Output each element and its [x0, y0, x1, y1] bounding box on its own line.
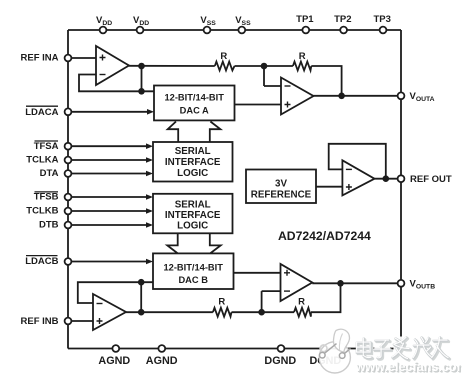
terminal TP2 — [340, 27, 347, 34]
svg-text:AD7242/AD7244: AD7242/AD7244 — [278, 229, 371, 243]
terminal REF INA — [65, 55, 72, 62]
svg-text:INTERFACE: INTERFACE — [165, 157, 221, 168]
node R3 junction — [258, 309, 265, 316]
node U5 output — [383, 175, 390, 182]
svg-text:AGND: AGND — [98, 355, 130, 367]
terminal REF INB — [65, 318, 72, 325]
ghost terminal DGND pin2 under logo — [320, 345, 327, 352]
svg-text:LOGIC: LOGIC — [177, 168, 208, 179]
node DACB ref — [138, 279, 145, 286]
svg-text:R: R — [220, 51, 227, 62]
svg-text:R: R — [218, 297, 225, 308]
wire LDACB to DAC B — [71, 259, 153, 265]
terminal DTB — [65, 222, 72, 229]
terminal VSS pin1 — [204, 27, 211, 34]
terminal TFSB — [65, 194, 72, 201]
svg-text:SERIAL: SERIAL — [175, 199, 211, 210]
block serial interface logic B — [153, 194, 233, 234]
wire U1 output row — [129, 66, 342, 96]
op-amp U5 — [342, 160, 374, 195]
wire DAC A to U2 — [235, 104, 282, 106]
terminal REF OUT — [398, 175, 405, 182]
wire DAC B to U4 — [234, 272, 281, 274]
svg-text:3V: 3V — [275, 178, 287, 189]
resistor R1 — [215, 62, 235, 71]
svg-text:DTB: DTB — [39, 220, 59, 231]
terminal TFSA — [65, 143, 72, 150]
block serial interface logic A — [153, 142, 233, 182]
block DAC A — [154, 86, 235, 121]
svg-text:12-BIT/14-BIT: 12-BIT/14-BIT — [163, 262, 223, 272]
wire REF INB to op-amp U3 — [71, 320, 93, 322]
watermark url text — [355, 360, 462, 376]
resistor R2 — [293, 62, 311, 71]
wire U4 output to VOUTB — [312, 282, 397, 284]
arrowhead LDACA — [147, 109, 154, 115]
wire REF INA to op-amp U1 — [71, 57, 96, 59]
label TFSB with overline — [34, 192, 59, 203]
svg-text:LDACB: LDACB — [25, 256, 58, 267]
bus arrow up-left DAC A — [168, 122, 179, 143]
node DACA ref — [138, 88, 145, 95]
terminal TP3 — [380, 27, 387, 34]
terminal VOUTA — [398, 92, 405, 99]
svg-text:TFSB: TFSB — [34, 192, 59, 203]
resistor R3 — [213, 308, 232, 317]
wire TCLKA arrow — [71, 157, 153, 163]
wire LDACA to DAC A — [71, 111, 148, 113]
wire 3V ref to U5 — [316, 186, 342, 188]
svg-text:TP2: TP2 — [334, 14, 351, 25]
node U3 output — [138, 309, 145, 316]
svg-text:DGND: DGND — [264, 355, 296, 367]
svg-text:www.elecfans.com: www.elecfans.com — [355, 360, 462, 374]
wire U3 output row — [126, 283, 341, 312]
wire TCLKB arrow — [71, 208, 153, 214]
svg-text:R: R — [298, 297, 305, 308]
bus arrow up-right DAC A — [210, 122, 221, 143]
node U2 output — [338, 93, 345, 100]
wire U2 output to VOUTA — [314, 95, 398, 97]
svg-text:LDACA: LDACA — [25, 107, 58, 118]
terminal LDACB — [65, 258, 72, 265]
svg-text:12-BIT/14-BIT: 12-BIT/14-BIT — [164, 93, 224, 103]
op-amp U1 — [96, 46, 129, 85]
terminal TCLKA — [65, 157, 72, 164]
wire U1 feedback — [79, 66, 154, 91]
svg-text:R: R — [299, 51, 306, 62]
svg-text:AGND: AGND — [146, 355, 178, 367]
wire bottom rail — [68, 348, 401, 350]
svg-text:DAC B: DAC B — [178, 275, 208, 285]
terminal LDACA — [65, 108, 72, 115]
wire U5 output to REF OUT — [375, 178, 398, 180]
op-amp U2 — [281, 78, 314, 115]
svg-text:REF INA: REF INA — [21, 53, 59, 64]
bus arrow down-left DAC B — [167, 233, 177, 253]
wire DTB arrow — [71, 222, 153, 228]
wire DTA arrow — [71, 171, 153, 177]
terminal DGND pin2 ghost — [320, 345, 327, 352]
svg-text:TFSA: TFSA — [34, 141, 59, 152]
wire U3 feedback — [78, 282, 153, 312]
wire U5 feedback loop — [329, 144, 386, 179]
terminal AGND pin1 — [112, 345, 119, 352]
svg-text:REFERENCE: REFERENCE — [251, 189, 312, 200]
svg-text:LOGIC: LOGIC — [177, 220, 208, 231]
watermark chinese text — [356, 337, 449, 361]
terminal VDD pin2 — [137, 27, 144, 34]
label LDACA with overline — [25, 106, 58, 118]
node U4 output — [337, 280, 344, 287]
terminal VOUTB — [398, 280, 405, 287]
wire TFSA arrow — [71, 143, 153, 149]
op-amp U3 — [93, 294, 126, 330]
wire right bus — [400, 30, 402, 349]
svg-text:REF OUT: REF OUT — [410, 174, 452, 185]
op-amp U4 — [281, 264, 313, 301]
wire TFSB arrow — [71, 194, 153, 200]
svg-text:DTA: DTA — [40, 168, 59, 179]
svg-text:SERIAL: SERIAL — [175, 146, 211, 157]
terminal VSS pin2 — [238, 27, 245, 34]
svg-text:DAC A: DAC A — [180, 106, 209, 116]
block 3V reference — [246, 170, 316, 204]
terminal DGND pin1 — [278, 345, 285, 352]
wire left bus — [67, 30, 69, 349]
resistor R4 — [294, 308, 311, 317]
wire top rail — [68, 29, 401, 31]
terminal AGND pin2 — [158, 345, 165, 352]
terminal TCLKB — [65, 208, 72, 215]
terminal VDD pin1 — [100, 27, 107, 34]
label TFSA with overline — [34, 141, 59, 152]
bus arrow down-right DAC B — [210, 233, 221, 253]
label LDACB with overline — [25, 256, 58, 268]
terminal DTA — [65, 170, 72, 177]
svg-text:TP3: TP3 — [373, 14, 390, 25]
block DAC B — [153, 253, 234, 289]
terminal TP1 — [302, 27, 309, 34]
svg-text:TCLKA: TCLKA — [26, 155, 58, 166]
svg-text:TP1: TP1 — [296, 14, 314, 25]
node U1 output — [138, 63, 145, 70]
node R2 junction — [261, 63, 268, 70]
watermark logo circle — [319, 329, 350, 373]
svg-text:TCLKB: TCLKB — [26, 206, 58, 217]
svg-text:INTERFACE: INTERFACE — [165, 210, 221, 221]
svg-text:REF INB: REF INB — [21, 316, 59, 327]
